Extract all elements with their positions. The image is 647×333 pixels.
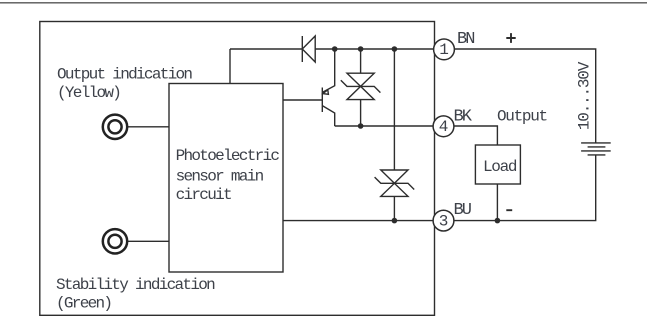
svg-text:3: 3 (439, 212, 449, 230)
svg-text:BK: BK (454, 108, 473, 127)
svg-text:Output indication: Output indication (57, 66, 192, 84)
svg-text:(Green): (Green) (56, 295, 111, 313)
svg-text:Output: Output (497, 108, 547, 126)
svg-text:BN: BN (457, 30, 474, 49)
svg-text:4: 4 (439, 118, 449, 136)
svg-text:(Yellow): (Yellow) (57, 84, 120, 102)
svg-text:BU: BU (454, 201, 471, 220)
svg-text:Photoelectric: Photoelectric (176, 147, 280, 165)
svg-text:10...30V: 10...30V (575, 61, 593, 130)
svg-text:circuit: circuit (176, 186, 231, 204)
svg-text:Load: Load (483, 158, 517, 176)
svg-text:sensor main: sensor main (176, 167, 264, 185)
svg-text:1: 1 (439, 41, 449, 59)
svg-text:Stability indication: Stability indication (56, 276, 215, 294)
